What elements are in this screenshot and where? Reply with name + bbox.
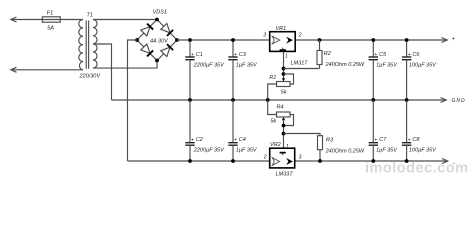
wire: secondary top to bridge (93, 19, 157, 21)
VR1 input arrow (hollow) (272, 36, 279, 44)
diode D1 top-left (141, 24, 153, 36)
svg-text:+: + (374, 52, 377, 58)
svg-text:C8: C8 (412, 137, 420, 143)
svg-text:C5: C5 (379, 52, 387, 58)
capacitor C2 (189, 100, 191, 143)
wire: R1 left to ground (268, 84, 277, 100)
svg-text:1: 1 (286, 144, 289, 150)
svg-text:C2: C2 (196, 137, 203, 143)
svg-text:5A: 5A (47, 25, 54, 31)
VR1 output arrow (filled) (286, 37, 293, 44)
svg-text:R2: R2 (324, 51, 331, 57)
svg-text:VR2: VR2 (270, 142, 281, 148)
node: bridge right vertex (175, 38, 179, 42)
svg-text:+: + (408, 138, 411, 144)
wire: negative rail right segment (295, 160, 448, 162)
svg-text:R4: R4 (277, 105, 284, 111)
arrow: negative output (442, 159, 448, 164)
R1 wiper arrowhead (282, 78, 285, 81)
wire: VR2 adj pin up (283, 120, 285, 148)
regulator VR2 LM337 (270, 148, 295, 168)
diode D2 top-right (161, 23, 173, 35)
transformer T1 secondary winding (93, 20, 97, 69)
svg-text:LM317: LM317 (291, 60, 309, 66)
capacitor C5 (372, 40, 374, 57)
svg-text:+: + (408, 52, 411, 58)
wire: ground rail (112, 99, 447, 101)
svg-text:T1: T1 (87, 13, 93, 19)
wire: positive rail right segment (295, 39, 447, 41)
svg-text:240Ohm 0.25W: 240Ohm 0.25W (325, 148, 365, 154)
svg-text:220/30V: 220/30V (79, 74, 102, 80)
node: adj/R4 wiper loop junction (282, 124, 286, 128)
node: adj/R3 junction (282, 132, 286, 136)
svg-text:2: 2 (298, 33, 302, 39)
svg-text:4A 30V: 4A 30V (150, 38, 169, 44)
node: adj/R2 junction (282, 67, 286, 71)
svg-text:VR1: VR1 (276, 26, 287, 32)
svg-text:5k: 5k (271, 119, 277, 125)
node: bridge top vertex (155, 18, 159, 22)
svg-text:+: + (374, 138, 377, 144)
arrow: mains bottom left (11, 67, 17, 72)
svg-text:2200µF 35V: 2200µF 35V (193, 148, 225, 154)
VR2 adjust tab (280, 152, 286, 154)
wire: mains bottom (11, 69, 83, 71)
bridge rectifier VDS1 outline (137, 20, 177, 61)
VR2 output arrow (filled) (286, 158, 293, 165)
svg-text:imolodec.com: imolodec.com (365, 161, 469, 177)
svg-text:+: + (234, 138, 237, 144)
capacitor C4 (232, 100, 234, 143)
regulator VR1 LM317 (270, 32, 296, 52)
svg-text:R3: R3 (326, 138, 334, 144)
capacitor C1 (189, 40, 191, 57)
svg-text:C7: C7 (379, 137, 387, 143)
wire: negative rail left segment (128, 160, 270, 162)
capacitor C7 (372, 100, 374, 143)
svg-text:+: + (234, 52, 237, 58)
capacitor C8 (406, 100, 408, 143)
resistor R3 (284, 134, 321, 136)
svg-text:GND: GND (452, 98, 466, 104)
svg-text:+: + (191, 52, 194, 58)
wire: VR1 adj pin down (283, 51, 285, 79)
svg-text:5k: 5k (281, 90, 287, 96)
node: adj/R1 wiper loop junction (282, 72, 286, 76)
svg-text:+: + (191, 138, 194, 144)
svg-text:R1: R1 (269, 75, 276, 81)
diode D4 bottom-right (161, 44, 173, 56)
wire: R4 wiper loop (284, 115, 294, 126)
node: bridge bottom vertex (155, 59, 159, 63)
wire: secondary center tap (93, 44, 112, 100)
capacitor C3 (232, 40, 234, 57)
wire: R1 wiper loop (284, 74, 294, 84)
node: R1/R4 ground junction (266, 98, 270, 102)
diode D3 bottom-left (141, 44, 153, 56)
R4 wiper arrowhead (282, 117, 285, 120)
capacitor C6 (406, 40, 408, 57)
svg-text:1: 1 (285, 53, 288, 59)
node: bridge left vertex (135, 38, 139, 42)
svg-text:1µF 35V: 1µF 35V (236, 148, 258, 154)
svg-text:3: 3 (263, 32, 266, 38)
svg-text:C3: C3 (239, 52, 247, 58)
arrow: positive output (442, 38, 448, 43)
svg-text:100µF 35V: 100µF 35V (409, 63, 437, 69)
svg-text:100µF 35V: 100µF 35V (409, 148, 437, 154)
transformer T1 primary winding (79, 20, 83, 70)
svg-text:240Ohm 0.25W: 240Ohm 0.25W (325, 62, 365, 68)
wire: bridge negative to bottom rail (128, 40, 138, 161)
svg-text:1µF 35V: 1µF 35V (376, 63, 398, 69)
svg-text:1µF 35V: 1µF 35V (236, 63, 258, 69)
svg-text:C6: C6 (412, 52, 420, 58)
transformer T1 core (85, 21, 87, 69)
arrow: mains top left (11, 17, 17, 22)
fuse F1 (42, 17, 60, 22)
wire: secondary bottom to bridge (93, 61, 157, 69)
svg-text:C1: C1 (196, 52, 203, 58)
svg-text:2200µF 35V: 2200µF 35V (193, 63, 225, 69)
wire: R4 left to ground (268, 100, 277, 115)
svg-text:F1: F1 (47, 11, 53, 17)
svg-text:3: 3 (299, 155, 302, 161)
wire: positive rail left segment (177, 39, 270, 41)
arrow: ground output (441, 98, 447, 103)
svg-text:2: 2 (263, 155, 267, 161)
svg-text:C4: C4 (239, 137, 246, 143)
VR2 input arrow (hollow) (272, 158, 279, 166)
svg-text:1µF 35V: 1µF 35V (376, 148, 398, 154)
svg-text:VDS1: VDS1 (153, 10, 167, 16)
svg-text:LM337: LM337 (276, 171, 294, 177)
VR1 adjust tab (280, 49, 286, 51)
resistor R2 (318, 38, 322, 42)
wire: mains top (11, 19, 83, 21)
